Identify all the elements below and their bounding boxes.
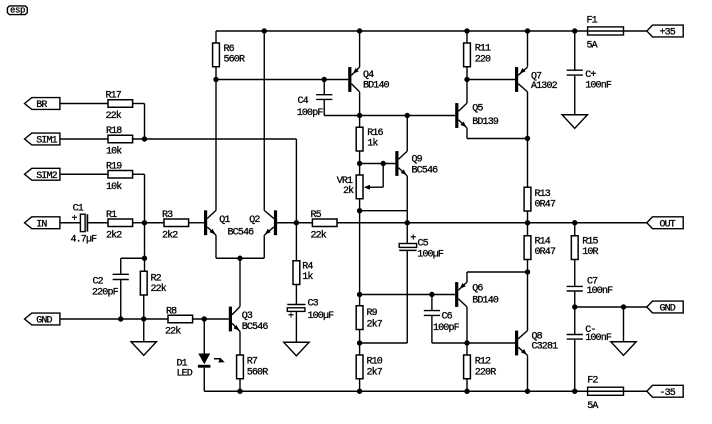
node junction top rail / Q4 emitter (357, 28, 362, 33)
wire Q4 emitter vertical (359, 31, 361, 67)
node junction top rail / C+ branch (572, 28, 577, 33)
svg-text:Q3: Q3 (242, 311, 253, 322)
wire R10 bottom lead (359, 379, 361, 392)
node junction R17/R18 feedback (142, 136, 147, 141)
resistor R19 (106, 161, 133, 193)
wire C5 bottom lead (406, 251, 408, 343)
port -35 (647, 385, 683, 397)
node junction feedback/R5/Q2 (294, 220, 299, 225)
wire D1 cathode to rail (203, 368, 205, 392)
svg-text:R10: R10 (367, 357, 383, 368)
wire R4 top lead (295, 223, 297, 261)
wire R6 bottom lead (215, 67, 217, 80)
port GND (25, 313, 60, 325)
svg-text:100µF: 100µF (308, 311, 335, 322)
wire C3 bottom lead (295, 312, 297, 343)
wire Q6 collector vertical (466, 307, 468, 355)
node junction top rail / Q2 collector (262, 28, 267, 33)
node junction R12/Q8 base (464, 340, 469, 345)
svg-text:22k: 22k (311, 229, 327, 241)
ground symbol (input) (131, 342, 156, 356)
wire SIM2 to R19 (60, 173, 108, 175)
wire C+ bottom lead (574, 76, 576, 115)
wire Q7 collector vertical (527, 92, 529, 187)
port SIM1 (25, 133, 60, 145)
wire output rail (337, 222, 647, 224)
transistor Q5 (455, 103, 499, 128)
node junction tail (237, 256, 242, 261)
svg-text:Q9: Q9 (412, 155, 423, 166)
node junction Q6 base / R9 column (357, 292, 362, 297)
wire C2 bottom lead (120, 280, 122, 319)
wire tail to Q3 collector (239, 258, 241, 306)
svg-text:220pF: 220pF (92, 288, 119, 299)
resistor R3 (162, 210, 189, 242)
svg-text:R11: R11 (475, 44, 491, 55)
svg-text:+35: +35 (660, 28, 676, 39)
svg-text:-35: -35 (660, 388, 676, 399)
svg-text:GND: GND (36, 316, 52, 327)
wire Q6 base line (360, 294, 456, 296)
wire C+ top lead (574, 31, 576, 70)
port IN (25, 217, 60, 229)
svg-text:R18: R18 (106, 126, 122, 137)
fuse F1 (587, 16, 624, 52)
svg-text:100nF: 100nF (585, 333, 612, 344)
node junction rail/R10 (357, 389, 362, 394)
svg-text:220: 220 (475, 55, 491, 66)
svg-text:BD139: BD139 (472, 117, 499, 128)
svg-text:22k: 22k (165, 326, 181, 338)
svg-text:R12: R12 (475, 357, 491, 368)
svg-text:R4: R4 (302, 262, 313, 273)
wire input node to R3 (145, 222, 165, 224)
wire C1 to R1 (88, 222, 108, 224)
wire GND line (60, 318, 168, 320)
ESP logo (7, 6, 27, 16)
wire R2 bottom lead (143, 295, 145, 319)
wire R7 bottom lead (239, 379, 241, 392)
wire R19 to input node (133, 173, 145, 175)
svg-text:C6: C6 (442, 312, 453, 323)
svg-text:R1: R1 (106, 210, 117, 221)
svg-text:R16: R16 (367, 128, 383, 139)
svg-text:Q2: Q2 (249, 215, 260, 226)
capacitor C7 (567, 276, 613, 297)
resistor R11 (464, 43, 491, 67)
wire Q2 emitter vertical (263, 235, 265, 258)
svg-text:100pF: 100pF (297, 108, 324, 119)
transistor Q9 (395, 151, 438, 176)
wire R2 gnd stub (143, 319, 145, 342)
svg-text:BR: BR (36, 100, 47, 111)
svg-text:A1302: A1302 (531, 81, 558, 92)
svg-text:22k: 22k (151, 283, 167, 295)
transistor Q4 (348, 67, 389, 92)
node junction C4 top (322, 77, 327, 82)
wire Q4 base line (216, 79, 348, 81)
resistor R13 (524, 187, 556, 211)
svg-text:C3: C3 (308, 299, 319, 310)
svg-text:R5: R5 (311, 210, 322, 221)
transistor Q8 (515, 331, 558, 356)
capacitor C6 (424, 295, 467, 344)
svg-text:+: + (410, 234, 416, 245)
svg-text:BD140: BD140 (363, 81, 390, 92)
wire Q9 emitter vertical (406, 176, 408, 223)
wire R13 bottom lead (527, 211, 529, 223)
resistor R16 (356, 127, 383, 151)
resistor R4 (293, 261, 313, 285)
wire Q9 base line (360, 163, 396, 165)
wire BR to R17 (60, 103, 108, 105)
wire R1 to input node (133, 222, 145, 224)
svg-text:BD140: BD140 (472, 296, 499, 307)
wire C- bottom lead (574, 340, 576, 392)
svg-text:C1: C1 (73, 204, 84, 215)
node junction rail/R12 (464, 389, 469, 394)
node junction Q9 collector (405, 113, 410, 118)
svg-text:5A: 5A (587, 41, 598, 52)
wire R11 bottom lead (466, 67, 468, 80)
wire R8 to Q3 base (193, 318, 229, 320)
svg-text:2k2: 2k2 (162, 229, 178, 241)
diode D1 LED (177, 354, 225, 380)
wire R4 to C3 (295, 285, 297, 305)
transistor Q6 (455, 282, 499, 307)
wire Q1 emitter vertical (215, 235, 217, 258)
wire C4/Q5 base line (324, 115, 455, 117)
capacitor C- (567, 307, 612, 344)
svg-text:2k7: 2k7 (367, 366, 383, 378)
svg-text:1k: 1k (367, 138, 378, 150)
svg-text:100pF: 100pF (433, 323, 460, 334)
node junction C2 ground (118, 316, 123, 321)
wire Q3 emitter to R7 (239, 331, 241, 355)
wire Q8 collector vertical (527, 272, 529, 331)
capacitor C+ (567, 70, 612, 92)
transistor Q3 (229, 307, 269, 333)
svg-text:10k: 10k (106, 146, 122, 158)
svg-text:2k2: 2k2 (106, 229, 122, 241)
wire R3 to Q1 base (189, 222, 204, 224)
svg-text:R17: R17 (106, 91, 122, 102)
node junction C7/C- (572, 304, 577, 309)
wire Q1 collector vertical (215, 80, 217, 211)
transistor Q2 (249, 210, 277, 235)
svg-text:100nF: 100nF (587, 286, 614, 297)
resistor R7 (237, 355, 269, 379)
svg-text:SIM2: SIM2 (36, 171, 57, 182)
svg-text:C2: C2 (93, 276, 104, 287)
wire R6 top lead / rail corner (215, 31, 217, 43)
port OUT (647, 217, 683, 229)
node junction R16/Q9 base (357, 161, 362, 166)
node junction output/Q9e/C5 (405, 220, 410, 225)
port +35 (647, 25, 683, 37)
svg-text:R2: R2 (151, 274, 162, 285)
node junction R6/Q1-collector rail (213, 77, 218, 82)
svg-text:R13: R13 (535, 189, 551, 200)
wire C7 bottom lead (574, 292, 576, 307)
svg-text:R19: R19 (106, 161, 122, 172)
wire Q4 collector vertical (359, 92, 361, 127)
svg-text:OUT: OUT (660, 219, 676, 230)
svg-text:+: + (72, 214, 78, 225)
svg-text:esp: esp (10, 6, 25, 16)
wire IN to C1 (60, 222, 81, 224)
wire R11 top lead (466, 31, 468, 43)
svg-text:10k: 10k (106, 181, 122, 193)
svg-text:560R: 560R (247, 367, 268, 378)
svg-text:560R: 560R (224, 54, 245, 65)
resistor R1 (106, 210, 133, 242)
svg-text:R8: R8 (166, 306, 177, 317)
svg-text:R14: R14 (535, 237, 551, 248)
svg-text:C+: C+ (585, 70, 596, 81)
node junction C4/Q5-base line on Q4 collector (357, 113, 362, 118)
svg-text:2k7: 2k7 (367, 319, 383, 331)
wire Q6 emitter line (467, 271, 528, 273)
wire R12 bottom lead (466, 379, 468, 392)
resistor R9 (356, 306, 383, 331)
wire input node down (144, 223, 146, 272)
resistor R15 (571, 236, 598, 260)
wire feedback line to Q2 base column (133, 138, 297, 140)
ground symbol (C3) (284, 342, 309, 356)
svg-text:BC546: BC546 (228, 227, 255, 238)
capacitor C1 (71, 204, 98, 246)
fuse F2 (587, 376, 623, 413)
svg-text:22k: 22k (106, 110, 122, 122)
resistor R14 (524, 236, 556, 260)
wire R17 to SIM1 node (133, 103, 145, 105)
port GND (output) (647, 301, 683, 313)
wire +35 rail (top) (216, 30, 647, 32)
wire Q2 collector vertical (263, 31, 265, 210)
wire SIM1 to R18 (60, 138, 108, 140)
wire emitter tail (216, 257, 264, 259)
wire R16 bottom lead (359, 151, 361, 175)
svg-text:100nF: 100nF (585, 81, 612, 92)
node junction R14/Q6 emitter/Q8 collector (525, 269, 530, 274)
svg-text:BC546: BC546 (412, 165, 439, 176)
wire gnd stub (623, 307, 625, 342)
resistor R6 (213, 43, 245, 67)
wire Q2 base lead (277, 222, 296, 224)
svg-text:SIM1: SIM1 (36, 136, 57, 147)
svg-text:C5: C5 (418, 239, 429, 250)
node junction input (R1/R19/C2) (142, 220, 147, 225)
node junction C6 top (429, 292, 434, 297)
wire Q5 collector vertical (466, 80, 468, 104)
wire R15 top lead (574, 223, 576, 236)
wire VR1 bottom lead (359, 199, 361, 211)
svg-text:10R: 10R (582, 247, 598, 258)
svg-text:BC546: BC546 (242, 322, 269, 333)
wire Q9 collector vertical (406, 116, 408, 152)
resistor R17 (106, 91, 133, 122)
svg-text:F2: F2 (587, 376, 598, 387)
wire C2 branch (121, 257, 145, 259)
potentiometer VR1 (337, 164, 383, 199)
node junction R11/Q5/Q7 base (464, 77, 469, 82)
capacitor C2 (92, 274, 129, 298)
ground symbol (output) (611, 342, 636, 356)
capacitor C3 (287, 299, 334, 323)
svg-text:4.7µF: 4.7µF (71, 235, 98, 246)
capacitor C5 (399, 223, 444, 261)
svg-text:GND: GND (660, 304, 676, 315)
wire to R5 (296, 222, 312, 224)
wire Q7 emitter vertical (527, 31, 529, 67)
svg-text:C4: C4 (298, 96, 309, 107)
node junction top rail / Q7 emitter (525, 28, 530, 33)
wire Q8 emitter vertical (527, 355, 529, 391)
svg-text:0R47: 0R47 (535, 247, 556, 258)
node junction rail/F2 (572, 389, 577, 394)
svg-text:C3281: C3281 (532, 342, 559, 353)
svg-text:R9: R9 (367, 308, 378, 319)
svg-text:220R: 220R (475, 367, 496, 378)
port BR (25, 98, 60, 110)
resistor R10 (356, 355, 383, 379)
node junction GND symbol branch (621, 304, 626, 309)
svg-text:100µF: 100µF (417, 250, 444, 261)
resistor R12 (464, 355, 497, 379)
node junction output/R15 (572, 220, 577, 225)
wire R9 bottom lead (359, 330, 361, 355)
node junction VR1 bottom / R9 column (357, 208, 362, 213)
node junction D1 (202, 316, 207, 321)
svg-text:2k: 2k (343, 185, 354, 197)
resistor R18 (106, 126, 133, 158)
svg-text:R3: R3 (162, 210, 173, 221)
svg-text:1k: 1k (302, 271, 313, 283)
wire VR1 bottom to Q9 emitter column (360, 210, 408, 212)
node junction output/R13/R14 (525, 220, 530, 225)
node junction C2/R2 (142, 256, 147, 261)
svg-text:+: + (288, 311, 294, 322)
node junction Q5 emitter / Q7 collector (525, 136, 530, 141)
wire D1 anode lead (203, 319, 205, 354)
ground symbol (C+) (562, 115, 587, 129)
wire Q8 base line (467, 342, 515, 344)
svg-text:Q1: Q1 (219, 215, 230, 226)
transistor Q1 (204, 210, 230, 235)
wire Q5 emitter corner (466, 128, 468, 139)
svg-text:R15: R15 (582, 237, 598, 248)
wire GND right line (575, 306, 647, 308)
wire R14 leads (527, 223, 529, 236)
svg-text:Q6: Q6 (472, 284, 483, 295)
transistor Q7 (515, 67, 558, 92)
wire Q6 emitter vertical (466, 272, 468, 282)
svg-text:LED: LED (177, 368, 193, 379)
capacitor C4 (297, 80, 333, 119)
svg-text:Q4: Q4 (363, 70, 374, 81)
node junction R9/R10/C5 (357, 340, 362, 345)
svg-text:R7: R7 (247, 357, 258, 368)
wire R9 column vertical (359, 211, 361, 306)
node junction R2 ground (141, 316, 146, 321)
node junction Q9 base / VR1 wiper (381, 161, 386, 166)
svg-text:Q5: Q5 (472, 104, 483, 115)
resistor R8 (165, 306, 193, 337)
svg-text:IN: IN (36, 219, 47, 230)
node junction rail/R7 (237, 389, 242, 394)
svg-text:F1: F1 (587, 16, 598, 27)
resistor R5 (311, 210, 338, 242)
wire R15 to C7 (574, 260, 576, 286)
svg-text:0R47: 0R47 (535, 200, 556, 211)
node junction top rail / R11 (464, 28, 469, 33)
node junction rail/Q8 emitter (525, 389, 530, 394)
wire Q7 base line (467, 79, 515, 81)
wire -35 rail (bottom) (204, 390, 646, 392)
resistor R2 (140, 271, 166, 295)
svg-text:5A: 5A (587, 401, 598, 412)
port SIM2 (25, 168, 60, 180)
